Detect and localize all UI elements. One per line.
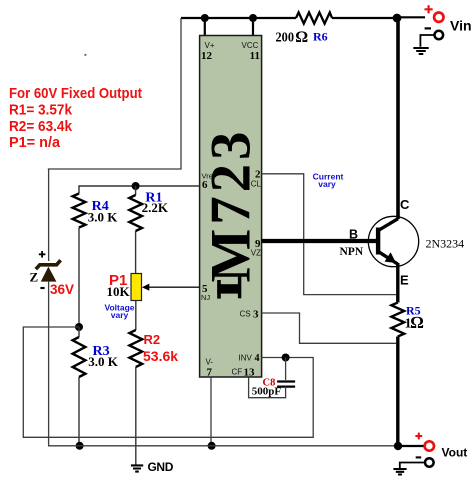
wire emitter to R5 top [396,263,399,303]
svg-text:CL: CL [251,180,262,189]
wire R4 top stub [78,186,80,194]
node A divider mid junction dot [75,323,83,331]
wire R3 top stub [78,327,80,337]
svg-text:E: E [400,273,409,288]
svg-text:10K: 10K [107,284,131,299]
pin label 5 NJ [201,283,210,302]
node INV junction dot [282,354,290,362]
svg-text:13: 13 [244,367,256,379]
label Voltage vary [104,303,134,321]
stray dot artifact [84,54,86,56]
svg-text:53.6k: 53.6k [143,348,178,364]
node VCC pin11 junction dot [249,14,257,22]
svg-text:INV: INV [239,354,253,363]
wire bottom rail [48,445,398,447]
svg-text:CS: CS [240,310,251,319]
wire R2 bottom to ground [135,367,137,465]
resistor R3 [73,337,119,377]
wire P1 bottom to R2 top [135,301,137,331]
wire top rail from corner to R6 [181,17,296,19]
ground symbol at Vin minus [413,48,428,54]
pin label 9 VZ [251,238,261,258]
note red text block [9,85,142,151]
wire CS pin3 routing to R5 bottom [262,313,397,343]
wire Vin junction to plus terminal [397,16,425,18]
svg-text:Vout: Vout [442,446,468,460]
svg-text:6: 6 [202,179,208,191]
label Current vary [313,172,344,190]
wire CL pin2 routing to emitter [262,174,397,295]
svg-text:200: 200 [276,30,295,45]
pin label CF 13 [232,367,256,379]
terminal Vout minus [400,457,434,468]
resistor R2 [129,330,178,367]
wire top rail from R6 to Vin junction [332,17,397,19]
pin label INV 4 [239,353,260,364]
pin label V+ 12 [201,41,215,62]
svg-text:2N3234: 2N3234 [426,237,465,251]
wire node A to left feedback drop [23,327,79,437]
node R1 top junction dot [132,182,140,190]
svg-text:CF: CF [232,368,243,377]
svg-text:R2: R2 [144,332,161,347]
svg-text:7: 7 [207,367,213,379]
wire V+ pin stub [204,18,206,36]
node V- bottom junction dot [208,442,216,450]
pin label VCC 11 [242,41,261,62]
wire zener anode down to bottom rail [48,282,50,446]
svg-text:M723: M723 [200,132,263,283]
svg-text:12: 12 [201,50,213,62]
wire V- pin7 to bottom rail [210,377,212,446]
svg-text:vary: vary [111,310,129,320]
resistor R1 [129,191,169,232]
svg-text:C: C [400,197,410,212]
potentiometer P1 [107,272,142,301]
svg-text:2.2K: 2.2K [142,200,169,215]
wire R1 top stub [135,186,137,195]
ground symbol GND [131,460,174,474]
node V+ pin12 junction dot [201,14,209,22]
wire INV pin4 to feedback net [23,358,314,438]
svg-text:NPN: NPN [340,246,364,258]
resistor R4 [73,194,119,228]
svg-text:VZ: VZ [251,249,261,258]
IC op-amp regulator U1 LM723 body [200,36,263,378]
wire left drop from top rail to zener feed [48,18,181,169]
resistor R5 [391,303,423,337]
svg-text:V+: V+ [205,41,215,50]
wire P1 wiper to NJ pin5 with arrow [142,284,200,291]
svg-text:NJ: NJ [201,293,210,302]
wire VCC pin stub [252,18,254,36]
wire R5 bottom to Vout junction [396,337,399,447]
wire R1 bottom to P1 top [135,231,137,274]
svg-text:R2= 63.4k: R2= 63.4k [9,118,73,135]
svg-text:B: B [349,228,358,242]
wire collector from top rail [396,18,400,219]
svg-text:GND: GND [148,460,174,474]
pin label 2 CL [251,169,262,189]
svg-text:R1= 3.57k: R1= 3.57k [9,102,73,119]
svg-text:vary: vary [318,179,336,189]
terminal Vin minus [420,28,443,46]
svg-text:4: 4 [255,353,260,364]
svg-text:VCC: VCC [242,41,259,50]
transistor Q1 2N3234 [340,197,465,288]
svg-text:R6: R6 [313,30,328,44]
svg-text:3.0 K: 3.0 K [88,354,119,369]
pin label Vref 6 [202,172,216,192]
svg-text:V-: V- [206,358,214,367]
svg-text:Ω: Ω [296,29,308,46]
wire Vref pin6 to divider top [78,185,199,187]
svg-text:36V: 36V [50,282,74,297]
svg-text:P1= n/a: P1= n/a [9,134,61,151]
svg-text:11: 11 [250,50,260,62]
zener diode Z 36V [30,251,75,297]
ground symbol at Vout minus [393,469,406,475]
resistor R6 [276,12,333,46]
svg-text:Ω: Ω [411,313,424,332]
terminal Vout plus [415,433,467,460]
wire Vout junction to plus terminal [398,445,425,447]
pin label V- 7 [206,358,214,379]
svg-text:Vin: Vin [450,18,472,34]
terminal Vin plus [425,5,472,33]
svg-text:Z: Z [30,270,39,285]
svg-text:3.0 K: 3.0 K [88,210,119,225]
node Vout junction dot [394,442,402,450]
node R3 bottom junction dot [76,442,84,450]
node Vin junction dot [393,14,402,23]
wire zener cathode up [48,169,50,261]
wire VZ pin9 base drive [262,239,378,243]
wire R3 bottom to bottom rail [78,377,80,446]
svg-text:For 60V Fixed Output: For 60V Fixed Output [9,85,142,102]
wire R4 bottom to node A [78,228,80,328]
svg-text:3: 3 [253,309,259,321]
svg-text:500pF: 500pF [252,385,282,397]
pin label CS 3 [240,309,260,321]
capacitor C8 500pF [249,358,296,398]
